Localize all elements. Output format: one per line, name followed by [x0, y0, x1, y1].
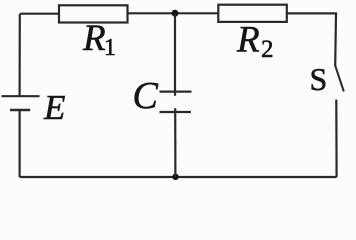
wire R2 to top-right corner	[287, 12, 337, 14]
bottom wire	[20, 176, 337, 178]
svg-text:E: E	[43, 88, 65, 127]
wire top-left segment	[20, 13, 60, 15]
wire between R1 and R2	[128, 12, 219, 14]
svg-text:2: 2	[261, 36, 274, 63]
wire middle upper (node to capacitor)	[174, 13, 176, 96]
node junction bottom	[172, 174, 178, 180]
wire right upper (to switch)	[334, 13, 337, 66]
svg-text:S: S	[310, 61, 328, 97]
wire middle lower (capacitor to bottom node)	[174, 108, 176, 177]
svg-text:C: C	[133, 75, 159, 117]
resistor R2	[218, 5, 286, 22]
battery E short plate	[10, 109, 30, 112]
wire left lower	[19, 110, 21, 177]
svg-text:R: R	[82, 18, 106, 59]
wire left upper	[19, 14, 21, 96]
node junction top	[172, 10, 179, 17]
resistor R1	[59, 5, 128, 22]
battery E long plate	[2, 95, 40, 97]
svg-text:R: R	[236, 20, 260, 61]
svg-text:1: 1	[104, 35, 116, 61]
switch S blade	[335, 66, 344, 92]
capacitor C bottom plate	[160, 111, 192, 113]
capacitor C top plate	[160, 90, 192, 92]
wire right lower	[335, 100, 338, 178]
